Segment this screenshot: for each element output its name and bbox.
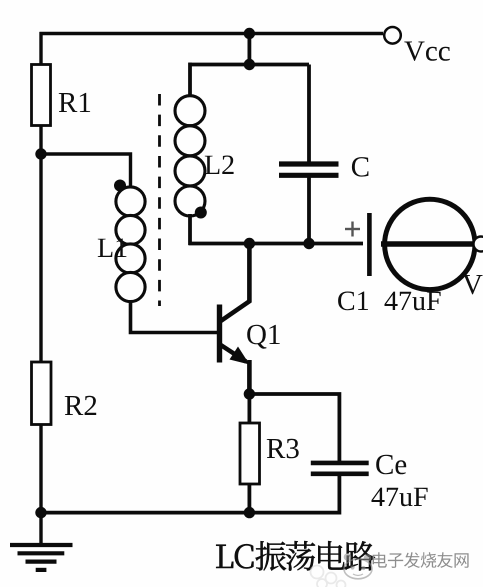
- node junction bottom left: [35, 507, 46, 518]
- wire from top rail down to tank rail: [247, 34, 251, 65]
- label L2: [205, 156, 234, 175]
- inductor L2 (4 turns): [175, 96, 205, 216]
- wire R3 bottom: [247, 484, 251, 515]
- capacitor C bottom lead: [307, 177, 311, 244]
- resistor R1: [32, 65, 51, 126]
- label Q1: [247, 325, 280, 349]
- label C1: [338, 292, 368, 311]
- wire L2 bottom to collector rail: [188, 214, 192, 245]
- wire L1 bottom to base: [131, 301, 218, 333]
- power terminal Vcc circle: [384, 27, 401, 44]
- inductor L1 (4 turns): [116, 187, 145, 302]
- wire collector rail: [189, 242, 364, 246]
- node junction collector rail center: [244, 238, 255, 249]
- wire Ce bottom lead: [337, 474, 341, 515]
- wire bottom rail: [41, 511, 339, 515]
- transformer core dashed line: [158, 94, 161, 306]
- resistor R3: [240, 423, 260, 484]
- output terminal circle: [474, 237, 483, 252]
- capacitor C plates: [279, 164, 339, 175]
- polarity dot L2: [195, 207, 207, 219]
- wire collector vertical: [247, 244, 252, 303]
- capacitor C1 plate bar: [367, 213, 372, 276]
- watermark text: [373, 552, 469, 568]
- transistor Q1 collector diagonal: [220, 301, 251, 322]
- label L1: [98, 239, 127, 258]
- wire through meter: [381, 241, 476, 246]
- wire left vertical rail: [39, 32, 42, 545]
- node junction at R1 bottom: [35, 148, 46, 159]
- wire to L2 top: [188, 63, 192, 97]
- wire emitter node to Ce branch: [249, 394, 339, 461]
- node junction on top rail: [244, 28, 255, 39]
- title LC oscillator text: [216, 541, 375, 571]
- label C: [352, 157, 369, 177]
- transistor Q1 base bar: [217, 305, 222, 363]
- label 47uF (C1): [385, 292, 441, 311]
- wire emitter vertical: [247, 360, 252, 397]
- plus sign for C1: [345, 222, 360, 237]
- node junction tank rail: [244, 59, 255, 70]
- label Ce: [376, 455, 406, 475]
- node junction emitter: [244, 388, 255, 399]
- meter circle (output): [385, 199, 475, 289]
- label Vo (cut): [462, 275, 482, 294]
- polarity dot L1: [114, 180, 126, 192]
- wire from node to L1 top: [41, 154, 131, 187]
- label R1: [59, 93, 90, 112]
- transistor Q1 emitter diagonal with arrow: [220, 345, 250, 365]
- wire top rail: [40, 32, 384, 35]
- wire tank top rail: [189, 63, 310, 67]
- label R3: [267, 439, 299, 459]
- capacitor Ce plates: [311, 463, 369, 474]
- wire emitter node down to R3: [247, 394, 251, 424]
- node junction bottom R3: [244, 507, 255, 518]
- resistor R2: [32, 362, 52, 425]
- label 47uF (Ce): [372, 488, 428, 507]
- label R2: [65, 396, 96, 415]
- label Vcc: [404, 42, 450, 61]
- ground: [10, 545, 73, 570]
- node junction collector rail at C: [303, 238, 314, 249]
- watermark logo: [344, 553, 372, 579]
- capacitor C top lead: [307, 65, 311, 163]
